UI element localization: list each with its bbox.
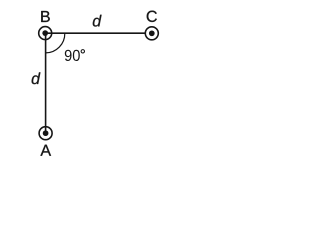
label C (147, 11, 157, 22)
label d (vertical segment) (32, 72, 41, 84)
wire BA (vertical segment of length d) (45, 33, 47, 133)
node A (circled dot) (39, 127, 52, 140)
label A (40, 145, 51, 156)
angle arc 90 degrees at B (46, 33, 65, 53)
node B (circled dot) (39, 27, 52, 40)
node C (circled dot) (145, 27, 158, 40)
label 90 degrees (65, 50, 85, 61)
label d (horizontal segment) (93, 15, 102, 27)
label B (41, 11, 50, 22)
wire BC (horizontal segment of length d) (45, 32, 145, 34)
